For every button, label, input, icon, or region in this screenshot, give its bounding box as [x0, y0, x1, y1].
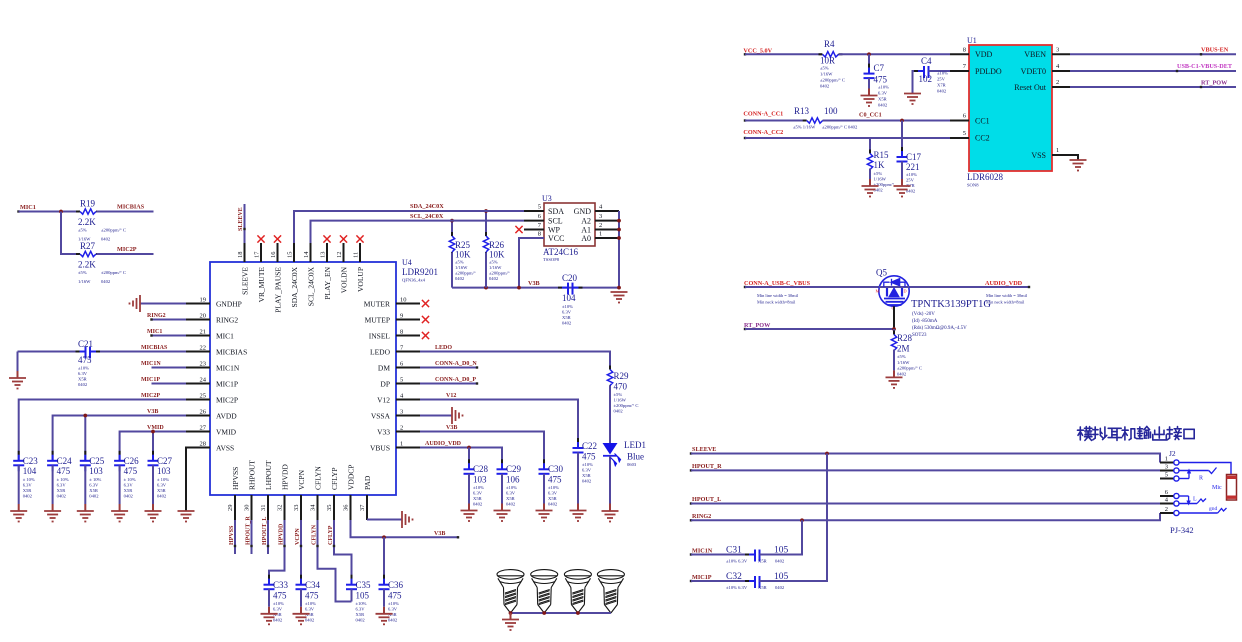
svg-text:0603: 0603: [627, 462, 637, 467]
U4 pin 4 V12: [396, 399, 420, 401]
U4 pin 29 HPVSS: [234, 495, 236, 520]
svg-text:2.2K: 2.2K: [78, 217, 96, 227]
svg-text:2.2K: 2.2K: [78, 260, 96, 270]
svg-text:±10%: ±10%: [388, 601, 399, 606]
svg-text:1/16W: 1/16W: [455, 265, 468, 270]
svg-text:VCPN: VCPN: [295, 528, 301, 545]
ground below C29: [494, 510, 511, 512]
svg-text:0402: 0402: [775, 585, 785, 590]
resistor R15: [869, 150, 871, 154]
svg-text:±5% 1/16W: ±5% 1/16W: [793, 125, 816, 130]
U4 pin 31 LHPOUT: [267, 495, 269, 520]
svg-text:1: 1: [400, 441, 403, 448]
svg-text:HPVDD: HPVDD: [278, 523, 284, 545]
svg-text:CONN-A_USB-C_VBUS: CONN-A_USB-C_VBUS: [744, 280, 811, 287]
wire V3B pin 26 to C24 C25: [53, 416, 186, 461]
svg-text:VDD: VDD: [975, 50, 993, 59]
svg-text:± 10%: ± 10%: [89, 477, 101, 482]
svg-text:C29: C29: [506, 464, 522, 474]
ground at U1 VSS: [1070, 155, 1078, 160]
svg-text:R25: R25: [455, 240, 471, 250]
wire J2 pin6 switch arrow down: [1179, 495, 1189, 497]
svg-text:0402: 0402: [455, 276, 465, 281]
svg-text:6.3V: 6.3V: [388, 607, 398, 612]
svg-text:0402: 0402: [937, 89, 947, 94]
resistor R25: [451, 221, 453, 236]
U4 pin 25 MIC2P: [186, 399, 210, 401]
svg-text:X5R: X5R: [758, 559, 768, 564]
svg-text:1: 1: [1056, 147, 1059, 154]
U4 pin 10 MUTER: [396, 303, 420, 305]
J2 pin 3: [1160, 470, 1174, 472]
svg-text:VSS: VSS: [1031, 151, 1046, 160]
svg-text:2: 2: [400, 425, 403, 432]
svg-text:V3B: V3B: [434, 531, 445, 537]
svg-text:DM: DM: [378, 363, 390, 372]
ground below R28: [886, 376, 903, 378]
svg-text:35: 35: [326, 505, 333, 512]
svg-text:3: 3: [400, 409, 403, 416]
wire VDDCP pin 36 V3B rail: [351, 520, 459, 537]
node C28 junction: [467, 446, 471, 450]
svg-text:Min line width = 30mil: Min line width = 30mil: [986, 293, 1028, 298]
svg-text:±200ppm/°: ±200ppm/°: [489, 271, 510, 276]
svg-text:TPNTK3139PT1G: TPNTK3139PT1G: [911, 299, 991, 310]
U3 pin 7 WP: [524, 229, 544, 231]
svg-text:VDDCP: VDDCP: [346, 465, 355, 490]
svg-text:RING2: RING2: [692, 513, 711, 520]
capacitor C22: [577, 438, 579, 442]
svg-text:VBUS-EN: VBUS-EN: [1201, 47, 1229, 54]
ground below C36: [376, 613, 393, 615]
U1 pin 6 CC1: [950, 120, 969, 122]
svg-text:X5R: X5R: [758, 585, 768, 590]
svg-text:±5%: ±5%: [874, 171, 883, 176]
capacitor C17: [901, 121, 903, 158]
U3 pin 4 GND: [595, 210, 619, 212]
svg-text:AUDIO_VDD: AUDIO_VDD: [985, 280, 1023, 287]
svg-text:DP: DP: [380, 379, 390, 388]
svg-text:104: 104: [23, 466, 37, 476]
transistor Q5 TPNTK3139PT1G: [879, 276, 909, 306]
capacitor C35: [351, 575, 353, 579]
svg-text:MIC1: MIC1: [20, 204, 36, 211]
resistor R26: [485, 211, 487, 236]
svg-text:1/16W: 1/16W: [897, 360, 910, 365]
ground at pin 28: [178, 510, 195, 512]
svg-text:C4: C4: [921, 56, 932, 66]
svg-text:0402: 0402: [388, 618, 398, 623]
svg-text:C17: C17: [906, 152, 922, 162]
U4 pin 11 VOLUP: [359, 243, 361, 262]
svg-text:AVDD: AVDD: [216, 411, 237, 420]
J2 pin 5: [1160, 478, 1174, 480]
wire CFLYP pin 35 to C35 top: [334, 520, 352, 585]
svg-text:MICBIAS: MICBIAS: [141, 345, 168, 351]
U3 pin 3 A2: [595, 220, 619, 222]
svg-text:104: 104: [562, 293, 576, 303]
svg-text:U4: U4: [402, 258, 412, 267]
svg-text:6.3V: 6.3V: [878, 91, 888, 96]
wire AVSS pin 28 to ground: [186, 448, 210, 512]
svg-text:V3B: V3B: [446, 425, 457, 431]
svg-text:± 10%: ± 10%: [124, 477, 136, 482]
svg-text:3: 3: [599, 213, 602, 220]
svg-text:6.3V: 6.3V: [57, 483, 67, 488]
svg-text:0402: 0402: [101, 279, 111, 284]
screw MH2: [531, 570, 558, 613]
ground below C26: [111, 510, 128, 512]
svg-text:V3B: V3B: [147, 409, 158, 415]
ground below C34: [293, 613, 310, 615]
screw MH4: [597, 570, 624, 613]
svg-text:C0_CC1: C0_CC1: [859, 112, 882, 119]
svg-text:1/16W: 1/16W: [874, 177, 887, 182]
svg-text:0402: 0402: [57, 494, 67, 499]
svg-text:HPVSS: HPVSS: [229, 525, 235, 545]
svg-text:1/16W: 1/16W: [820, 72, 833, 77]
svg-text:D: D: [904, 289, 907, 294]
svg-text:10R: 10R: [820, 56, 835, 66]
svg-text:0402: 0402: [878, 103, 888, 108]
svg-text:6.3V: 6.3V: [562, 310, 572, 315]
U1 pin 8 VDD: [950, 53, 969, 55]
IC U1 LDR6028: [969, 45, 1052, 171]
node RING2-C31 junction: [800, 518, 804, 522]
wire PAD pin 37 to ground: [366, 495, 368, 520]
svg-text:MIC2P: MIC2P: [216, 395, 238, 404]
svg-text:3: 3: [1165, 464, 1168, 471]
capacitor C27: [152, 451, 154, 455]
svg-text:±200ppm/° C: ±200ppm/° C: [101, 228, 126, 233]
svg-text:1K: 1K: [874, 160, 886, 170]
svg-text:X5R: X5R: [57, 488, 67, 493]
svg-text:PDLDO: PDLDO: [975, 67, 1002, 76]
U1 pin 3 VBEN: [1052, 53, 1070, 55]
svg-text:2: 2: [599, 222, 602, 229]
svg-text:LDR6028: LDR6028: [967, 172, 1004, 182]
no-connect X pin 16: [274, 235, 281, 242]
svg-text:C30: C30: [548, 464, 564, 474]
U1 pin 2 Reset Out: [1052, 86, 1070, 88]
switch arrow pin5 to pin3: [1179, 478, 1189, 480]
svg-text:SOT23: SOT23: [912, 333, 927, 338]
J2 pin 2: [1160, 512, 1174, 514]
svg-text:±200ppm/° C: ±200ppm/° C: [101, 270, 126, 275]
svg-text:QFN36_4x4: QFN36_4x4: [402, 278, 426, 283]
svg-text:475: 475: [305, 591, 319, 601]
wire HPVDD pin 32 to C33: [269, 520, 285, 585]
svg-text:37: 37: [359, 504, 366, 511]
U1 pin 4 VDET0: [1052, 70, 1070, 72]
svg-text:221: 221: [906, 162, 920, 172]
ground below C33: [261, 613, 278, 615]
svg-text:R4: R4: [824, 39, 835, 49]
svg-text:C36: C36: [388, 580, 404, 590]
svg-text:±10%: ±10%: [878, 85, 889, 90]
wire USB-C1-VBUS-DET: [1070, 70, 1236, 72]
svg-text:±200ppm/° C: ±200ppm/° C: [897, 366, 922, 371]
svg-text:gnd: gnd: [1209, 506, 1218, 512]
no-connect X pin 9: [422, 316, 429, 323]
U4 pin 18 SLEEVE: [244, 243, 246, 262]
svg-text:R27: R27: [80, 241, 96, 251]
svg-text:X5R: X5R: [878, 97, 888, 102]
net SLEEVE at pin 18: [244, 204, 246, 243]
svg-text:6.3V: 6.3V: [273, 607, 283, 612]
microphone body: [1227, 475, 1237, 501]
svg-text:2M: 2M: [897, 344, 910, 354]
svg-text:R: R: [1199, 476, 1203, 482]
wire RT_POW: [745, 328, 894, 330]
U4 pin 34 CFLYN: [317, 495, 319, 520]
wire V33 pin 2 to C30: [420, 432, 544, 470]
svg-text:C33: C33: [273, 580, 289, 590]
U3 pin 1 A0: [595, 237, 619, 239]
svg-text:1/16W: 1/16W: [78, 279, 91, 284]
svg-text:±10%: ±10%: [582, 462, 593, 467]
svg-text:X5R: X5R: [89, 488, 99, 493]
svg-text:0402: 0402: [305, 618, 315, 623]
capacitor C29: [501, 459, 503, 463]
svg-text:C24: C24: [57, 456, 73, 466]
svg-text:28: 28: [200, 441, 207, 448]
U4 pin 21 MIC1: [186, 335, 210, 337]
svg-text:27: 27: [200, 425, 207, 432]
U4 pin 6 DM: [396, 367, 420, 369]
wire HPOUT_R: [691, 469, 1160, 471]
svg-text:475: 475: [124, 466, 138, 476]
svg-text:2: 2: [1165, 506, 1168, 513]
svg-text:0402: 0402: [101, 237, 111, 242]
svg-text:±10%: ±10%: [548, 485, 559, 490]
svg-text:X5R: X5R: [23, 488, 33, 493]
svg-text:103: 103: [157, 466, 171, 476]
capacitor C20: [558, 287, 562, 289]
net MIC1N at pin 23: [152, 367, 187, 369]
svg-text:MIC1P: MIC1P: [216, 379, 238, 388]
wire U3 ground bus: [618, 211, 620, 288]
U3 pin 2 A1: [595, 229, 619, 231]
wire SCL_24C0X: [311, 221, 525, 243]
svg-text:U3: U3: [542, 194, 552, 203]
wire J2 pin2 switch gnd: [1179, 512, 1218, 514]
svg-text:VCC: VCC: [548, 234, 564, 243]
svg-text:1/16W: 1/16W: [614, 398, 627, 403]
net MIC1 at pin 21: [152, 335, 187, 337]
svg-text:0402: 0402: [897, 371, 907, 376]
svg-text:SLEEVE: SLEEVE: [240, 267, 249, 295]
svg-text:X5R: X5R: [562, 315, 572, 320]
svg-text:31: 31: [260, 505, 267, 512]
svg-text:1/16W: 1/16W: [489, 265, 502, 270]
svg-text:10K: 10K: [455, 250, 471, 260]
svg-text:MICBIAS: MICBIAS: [117, 204, 145, 211]
no-connect X on WP: [515, 226, 522, 233]
svg-text:C25: C25: [89, 456, 105, 466]
svg-text:CONN-A_CC2: CONN-A_CC2: [743, 129, 783, 136]
svg-text:±10%: ±10%: [506, 485, 517, 490]
svg-text:24: 24: [200, 377, 207, 384]
svg-text:5: 5: [963, 130, 966, 137]
svg-text:0402: 0402: [23, 494, 33, 499]
capacitor C30: [543, 459, 545, 463]
svg-text:RT_POW: RT_POW: [744, 322, 771, 329]
svg-text:SLEEVE: SLEEVE: [238, 207, 244, 231]
svg-text:0402: 0402: [775, 559, 785, 564]
svg-text:HPOUT_R: HPOUT_R: [692, 463, 722, 470]
node MIC1 junction: [59, 210, 63, 214]
svg-text:LEDO: LEDO: [435, 345, 452, 351]
svg-text:±10% 6.3V: ±10% 6.3V: [726, 559, 748, 564]
svg-text:475: 475: [388, 591, 402, 601]
svg-text:21: 21: [200, 329, 207, 336]
U4 pin 5 DP: [396, 383, 420, 385]
svg-text:(Rds) 530mΩ@0.9A,-4.5V: (Rds) 530mΩ@0.9A,-4.5V: [912, 326, 967, 331]
resistor R29: [609, 366, 611, 370]
svg-text:TSSOP8: TSSOP8: [543, 257, 560, 262]
svg-text:MIC1N: MIC1N: [216, 363, 240, 372]
svg-text:X5R: X5R: [582, 473, 592, 478]
capacitor C23: [18, 451, 20, 455]
no-connect X pin 13: [323, 235, 330, 242]
wire MICBIAS pin 22 with C21: [95, 351, 187, 353]
svg-text:10K: 10K: [489, 250, 505, 260]
wire SDA_24C0X: [294, 211, 524, 243]
svg-text:SCL_24C0X: SCL_24C0X: [306, 266, 315, 306]
resistor R28: [893, 329, 895, 334]
capacitor C7: [868, 54, 870, 73]
svg-text:AVSS: AVSS: [216, 443, 234, 452]
svg-text:3: 3: [1056, 47, 1059, 54]
wire screw ground rail: [511, 612, 611, 614]
svg-text:R15: R15: [874, 150, 890, 160]
svg-text:C20: C20: [562, 273, 578, 283]
svg-text:SLEEVE: SLEEVE: [692, 446, 716, 453]
svg-text:VBUS: VBUS: [370, 443, 390, 452]
svg-text:22: 22: [200, 345, 207, 352]
net HPOUT_L at pin 31: [267, 520, 269, 554]
svg-text:X5R: X5R: [473, 496, 483, 501]
no-connect X pin 10: [422, 300, 429, 307]
wire R4 to U1 pin 8: [869, 53, 950, 55]
svg-text:MIC2P: MIC2P: [141, 393, 160, 399]
U3 pin 5 SDA: [524, 210, 544, 212]
net MIC1P at pin 24: [152, 383, 187, 385]
U4 pin 16 PLAY_PAUSE: [277, 243, 279, 262]
svg-text:VBEN: VBEN: [1024, 50, 1046, 59]
svg-text:X5R: X5R: [78, 377, 88, 382]
svg-text:12: 12: [336, 252, 343, 259]
wire VBUS pin 1 AUDIO_VDD: [420, 448, 502, 470]
U4 pin 30 RHPOUT: [251, 495, 253, 520]
svg-text:25V: 25V: [906, 178, 915, 183]
svg-text:±200ppm/°: ±200ppm/°: [455, 271, 476, 276]
svg-text:MUTEP: MUTEP: [365, 315, 390, 324]
svg-text:LED1: LED1: [624, 440, 646, 450]
ground below screws: [510, 613, 512, 620]
wire J2 pin3 switch R: [1179, 470, 1209, 472]
net HPOUT_R at pin 30: [251, 520, 253, 554]
svg-text:0402: 0402: [356, 618, 366, 623]
net RING2 at pin 20: [152, 319, 187, 321]
wire V3B bottom rail: [452, 287, 619, 289]
svg-text:6.3V: 6.3V: [506, 491, 516, 496]
svg-text:475: 475: [57, 466, 71, 476]
capacitor C34: [300, 575, 302, 579]
svg-text:17: 17: [254, 251, 261, 258]
svg-text:CC1: CC1: [975, 117, 990, 126]
svg-text:25: 25: [200, 393, 207, 400]
svg-text:PJ-342: PJ-342: [1170, 525, 1194, 535]
svg-text:470: 470: [614, 382, 628, 392]
svg-text:C34: C34: [305, 580, 321, 590]
wire Q5 gate down: [893, 306, 895, 329]
svg-text:PLAY_PAUSE: PLAY_PAUSE: [273, 267, 282, 313]
svg-text:Q5: Q5: [876, 268, 887, 278]
wire J2 pin4 switch L: [1179, 503, 1197, 505]
svg-text:V33: V33: [377, 427, 390, 436]
svg-text:V12: V12: [377, 395, 390, 404]
title Chinese: analog headphone output port: [1078, 427, 1195, 441]
svg-text:105: 105: [356, 591, 370, 601]
svg-text:LDR9201: LDR9201: [402, 267, 438, 277]
svg-text:6.3V: 6.3V: [23, 483, 33, 488]
svg-text:± 10%: ± 10%: [57, 477, 69, 482]
svg-text:C22: C22: [582, 441, 597, 451]
svg-text:INSEL: INSEL: [369, 331, 391, 340]
resistor R13: [803, 120, 807, 122]
svg-text:MUTER: MUTER: [364, 299, 390, 308]
ground below C17: [894, 185, 911, 187]
ground left of C21: [9, 377, 26, 379]
U4 pin 13 PLAY_EN: [326, 243, 328, 262]
svg-text:VCC_5.0V: VCC_5.0V: [743, 47, 772, 54]
svg-text:103: 103: [473, 475, 487, 485]
svg-text:6.3V: 6.3V: [78, 371, 88, 376]
svg-text:±10%: ±10%: [562, 304, 573, 309]
svg-text:WP: WP: [548, 225, 561, 234]
svg-text:1: 1: [599, 231, 602, 238]
svg-text:6.3V: 6.3V: [157, 483, 167, 488]
wire MIC1 down to R27: [61, 212, 80, 255]
svg-text:Min neck width=8mil: Min neck width=8mil: [986, 300, 1025, 305]
U4 pin 33 VCPN: [300, 495, 302, 520]
capacitor C36: [383, 575, 385, 579]
svg-text:Min neck width=8mil: Min neck width=8mil: [757, 300, 796, 305]
capacitor C25: [84, 451, 86, 455]
svg-text:RT_POW: RT_POW: [1201, 79, 1228, 86]
svg-text:0402: 0402: [78, 382, 88, 387]
svg-text:6.3V: 6.3V: [548, 491, 558, 496]
svg-text:C26: C26: [124, 456, 140, 466]
svg-text:14: 14: [303, 251, 310, 258]
U4 pin 7 LEDO: [396, 351, 420, 353]
U4 pin 20 RING2: [186, 319, 210, 321]
svg-text:VOLDN: VOLDN: [339, 266, 348, 293]
wire RING2: [691, 513, 1160, 520]
svg-text:25V: 25V: [937, 77, 946, 82]
svg-text:6.3V: 6.3V: [356, 607, 366, 612]
svg-text:5: 5: [538, 204, 541, 211]
svg-text:SDA: SDA: [548, 207, 564, 216]
svg-text:± 10%: ± 10%: [157, 477, 169, 482]
IC U3 AT24C16: [544, 203, 595, 246]
svg-text:34: 34: [310, 504, 317, 511]
svg-text:C23: C23: [23, 456, 39, 466]
svg-text:SDA_24C0X: SDA_24C0X: [410, 203, 444, 210]
svg-text:1: 1: [1165, 456, 1168, 463]
